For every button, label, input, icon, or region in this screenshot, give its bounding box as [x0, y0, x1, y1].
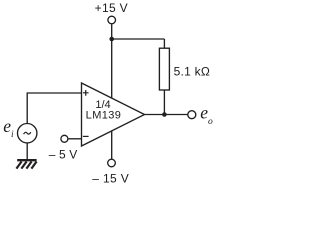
terminal +15 V [108, 16, 116, 24]
wire: branch down to resistor top [163, 39, 165, 48]
terminal -15 V [108, 159, 116, 167]
wire: source to non-inverting input [27, 93, 81, 124]
minus input mark [83, 135, 89, 137]
svg-text:– 15 V: – 15 V [92, 171, 129, 185]
resistor R (5.1 k) body [159, 48, 169, 90]
svg-text:5.1 kΩ: 5.1 kΩ [174, 65, 211, 79]
wire: top junction to resistor branch [112, 38, 165, 40]
node junction output [162, 112, 167, 117]
svg-text:+15 V: +15 V [95, 1, 128, 15]
terminal -5 V [61, 135, 68, 142]
svg-text:– 5 V: – 5 V [49, 147, 78, 161]
wire: -5V terminal to inverting input [68, 138, 81, 140]
wire: resistor bottom to output node [163, 90, 165, 115]
source ei (AC) circle [18, 124, 37, 143]
plus input mark [83, 90, 89, 96]
wire: top junction down to op-amp V+ pin [111, 39, 113, 99]
svg-text:LM139: LM139 [86, 110, 122, 122]
node junction top [109, 37, 114, 42]
wire: op-amp V- pin to -15V terminal [111, 130, 113, 158]
terminal eo [188, 111, 196, 119]
op-amp U1 triangle [82, 83, 145, 146]
wire: +15V terminal to top junction [111, 24, 113, 39]
wire: source bottom to ground [26, 143, 28, 159]
tilde inside source [24, 132, 31, 134]
wire: op-amp output to eo terminal [145, 114, 188, 116]
ground symbol [16, 160, 36, 168]
